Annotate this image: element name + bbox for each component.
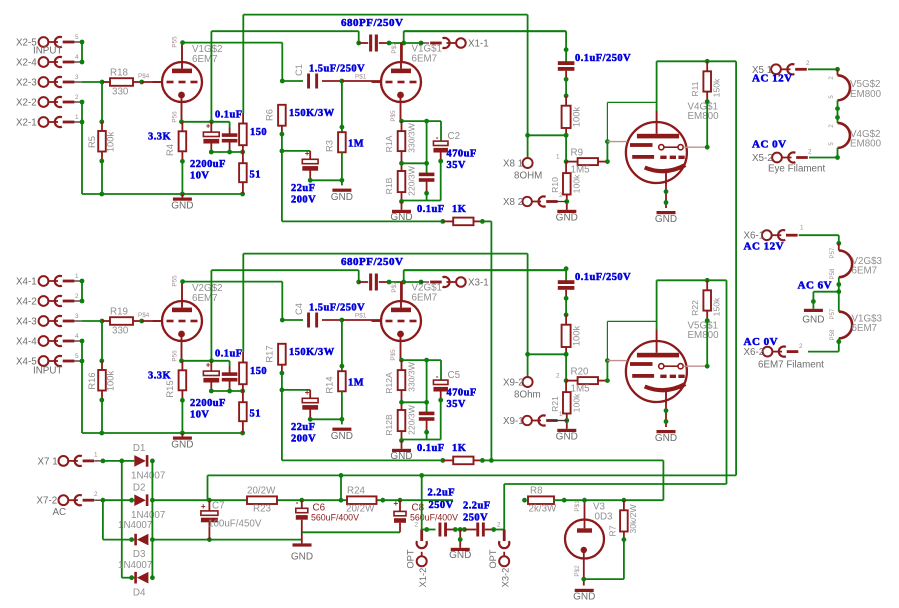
svg-text:R6: R6: [264, 109, 275, 121]
wire filament join: [837, 100, 839, 123]
resistor R17 150K/3W: [278, 344, 286, 365]
svg-text:10V: 10V: [190, 410, 209, 421]
svg-text:R8: R8: [530, 486, 543, 497]
connector X7-2: [59, 495, 69, 505]
filament V5G$2 EM800: [837, 69, 839, 75]
wire input to grid resistor: [82, 320, 103, 322]
capacitor 0.1uF/250V (eye2): [558, 280, 575, 284]
ground GND (V3): [575, 589, 594, 592]
triode V1G$2 6EM7: [162, 62, 202, 102]
resistor 1K (feedback): [443, 459, 453, 461]
capacitor C2 470uF/35V: [433, 141, 448, 145]
resistor R23 20/2W: [247, 496, 277, 504]
svg-text:X8 2: X8 2: [503, 197, 523, 208]
capacitor C7 100uF/450V: [207, 498, 212, 503]
svg-text:150k: 150k: [712, 78, 722, 97]
svg-text:4: 4: [75, 333, 79, 340]
wire to grid of output triode: [342, 80, 381, 82]
wire R to ground bus: [101, 152, 103, 162]
wire X7-2 to D3: [102, 500, 104, 539]
svg-text:C2: C2: [448, 131, 461, 142]
capacitor 2200uF/10V: [210, 361, 212, 371]
wire R to ground bus: [101, 391, 103, 401]
wire 51 to ground bus: [242, 182, 244, 194]
resistor R14 1M: [341, 320, 343, 371]
wire top bus 1: [243, 14, 527, 16]
svg-text:2: 2: [799, 343, 803, 350]
wire to output connector: [404, 281, 421, 283]
svg-text:C4: C4: [293, 303, 304, 315]
svg-text:P58: P58: [830, 268, 836, 279]
wire eye plate line: [656, 280, 658, 330]
svg-text:X2-4: X2-4: [16, 58, 37, 69]
svg-text:R5: R5: [86, 136, 97, 148]
triode V1G$1 6EM7: [381, 62, 421, 102]
connector X4-3: [39, 316, 49, 326]
wire R10 to gnd: [566, 195, 568, 210]
svg-text:2200uF: 2200uF: [190, 159, 226, 170]
svg-text:X7-2: X7-2: [37, 496, 58, 507]
svg-text:250V: 250V: [429, 500, 454, 511]
svg-text:R3: R3: [324, 140, 335, 152]
wire R1A-R1B junction: [401, 151, 403, 171]
svg-text:R4: R4: [164, 144, 175, 156]
svg-text:1M5: 1M5: [571, 165, 591, 176]
svg-text:6EM7: 6EM7: [852, 266, 878, 277]
svg-text:100uF/450V: 100uF/450V: [208, 519, 262, 530]
svg-text:100k: 100k: [572, 393, 582, 412]
svg-text:D4: D4: [133, 588, 146, 599]
ground GND (R1B): [401, 441, 403, 449]
svg-text:8OHM: 8OHM: [514, 171, 542, 182]
svg-text:35V: 35V: [447, 399, 466, 410]
capacitor C5 470uF/35V: [433, 380, 448, 384]
wire resistor to grid pin: [133, 320, 142, 322]
svg-text:1K: 1K: [452, 443, 466, 454]
ground GND (cathode): [181, 433, 183, 437]
connector X2-3: [39, 77, 49, 87]
svg-text:1: 1: [94, 452, 98, 459]
svg-text:X2-3: X2-3: [16, 78, 37, 89]
svg-text:X2-2: X2-2: [16, 98, 37, 109]
diode D2 1N4007: [129, 498, 134, 503]
svg-text:X1-2: X1-2: [417, 568, 428, 588]
svg-text:R10: R10: [550, 177, 560, 193]
svg-text:X3-1: X3-1: [468, 278, 489, 289]
svg-text:0D3: 0D3: [595, 512, 614, 523]
svg-text:+: +: [305, 149, 310, 158]
wire R10 to gnd: [566, 414, 568, 429]
svg-text:R21: R21: [550, 396, 560, 412]
svg-text:R22: R22: [690, 300, 700, 316]
svg-text:100k: 100k: [105, 132, 116, 153]
svg-text:X3-2: X3-2: [499, 568, 510, 588]
ground GND (R3): [332, 428, 351, 431]
svg-text:P$1: P$1: [355, 313, 367, 320]
svg-text:220/3W: 220/3W: [407, 404, 417, 435]
wire X5-1 to filament: [808, 68, 838, 70]
svg-text:100k: 100k: [571, 107, 582, 128]
triode V2G$1 6EM7: [381, 301, 421, 341]
svg-text:GND: GND: [390, 451, 412, 462]
svg-text:330/3W: 330/3W: [407, 361, 417, 392]
svg-text:22uF: 22uF: [291, 183, 316, 194]
wire top bus 2: [211, 30, 358, 32]
svg-text:1K: 1K: [452, 204, 466, 215]
svg-text:100k: 100k: [572, 174, 582, 193]
svg-text:-: -: [296, 498, 299, 507]
wire feedback drop: [662, 460, 664, 500]
svg-text:200V: 200V: [291, 434, 316, 445]
wire resistor to grid pin: [133, 81, 142, 83]
svg-text:3: 3: [75, 74, 79, 81]
capacitor 2200uF/10V: [210, 122, 212, 132]
svg-text:150K/3W: 150K/3W: [289, 347, 335, 358]
ground GND (speaker): [557, 429, 576, 432]
ground GND (C6): [293, 543, 312, 546]
capacitor C4 1.5uF/250V: [282, 319, 303, 321]
connector X8 1 speaker +: [527, 15, 529, 159]
svg-text:R18: R18: [110, 68, 129, 79]
wire 22uF to R3 gnd: [310, 418, 342, 420]
resistor R4 3.3K: [181, 122, 183, 132]
wire R6 bottom node: [281, 365, 283, 373]
svg-text:3.3K: 3.3K: [148, 132, 171, 143]
capacitor 0.1uF (cathode): [229, 122, 231, 128]
svg-text:P$5: P$5: [390, 349, 397, 361]
connector X5-2: [772, 153, 782, 163]
svg-text:470uF: 470uF: [447, 388, 477, 399]
svg-text:R1B: R1B: [384, 177, 394, 194]
svg-text:6EM7: 6EM7: [192, 54, 218, 65]
svg-text:5: 5: [829, 142, 835, 146]
svg-text:P56: P56: [172, 350, 179, 362]
svg-text:0.1uF: 0.1uF: [417, 204, 445, 215]
connector X1-1: [456, 38, 466, 48]
wire cathode to node: [179, 119, 184, 124]
wire cathode down: [399, 358, 404, 363]
wire feedback corner: [482, 459, 491, 461]
svg-text:0.1uF: 0.1uF: [417, 443, 445, 454]
wire plate lead up: [401, 43, 403, 62]
svg-text:150: 150: [250, 127, 267, 138]
svg-text:R17: R17: [264, 345, 275, 362]
wire bus to 0.1uF/250V: [565, 31, 567, 61]
svg-text:2k/3W: 2k/3W: [529, 504, 558, 515]
svg-text:20/2W: 20/2W: [346, 504, 375, 515]
svg-text:1: 1: [559, 411, 563, 418]
wire 51 to ground bus: [242, 421, 244, 433]
svg-text:1M: 1M: [348, 378, 364, 389]
svg-text:P56: P56: [172, 111, 179, 123]
svg-text:100k: 100k: [105, 371, 116, 392]
svg-text:2: 2: [415, 522, 419, 529]
svg-text:C1: C1: [293, 64, 304, 76]
ground GND (cathode): [181, 194, 183, 198]
svg-text:X4-4: X4-4: [16, 337, 37, 348]
svg-text:X6-2: X6-2: [744, 347, 765, 358]
wire X3-2 to B+ rail3: [503, 484, 505, 529]
svg-text:X4-3: X4-3: [16, 317, 37, 328]
diode D1 1N4007: [134, 455, 146, 467]
wire input pair to ground bus: [81, 102, 83, 194]
capacitor C1 1.5uF/250V: [282, 80, 303, 82]
svg-text:5: 5: [75, 34, 79, 41]
svg-text:1: 1: [75, 273, 79, 280]
ground GND (R1B): [401, 202, 403, 210]
wire 22uF to R3 gnd: [310, 179, 342, 181]
svg-text:330: 330: [112, 87, 129, 98]
ground GND (R3): [332, 189, 351, 192]
svg-text:D2: D2: [133, 482, 146, 493]
svg-text:R20: R20: [571, 367, 590, 378]
cathode rail wire: [182, 360, 230, 362]
wire node to speaker jack line: [528, 353, 567, 355]
wire eye plate line: [656, 61, 658, 111]
svg-text:1N4007: 1N4007: [118, 520, 152, 531]
connector X6-1: [762, 230, 772, 240]
wire eye cathode: [665, 183, 667, 208]
svg-text:GND: GND: [331, 431, 353, 442]
resistor R6 150K/3W: [278, 105, 286, 126]
svg-text:2: 2: [75, 293, 79, 300]
resistor 1K (feedback): [443, 220, 453, 222]
svg-text:1M: 1M: [348, 139, 364, 150]
svg-text:X4-2: X4-2: [16, 297, 37, 308]
wire R1A-R1B junction: [401, 390, 403, 410]
feedback row wire: [282, 459, 443, 461]
svg-text:GND: GND: [573, 592, 595, 603]
svg-text:200V: 200V: [291, 195, 316, 206]
wire to output connector: [404, 42, 421, 44]
wire X7-2 to D2: [103, 499, 134, 501]
resistor R 100k: [562, 325, 571, 347]
wire bottom rail: [401, 431, 403, 440]
wire B+ drop: [735, 61, 737, 475]
wire 100k to node: [565, 347, 567, 354]
resistor 150: [239, 124, 247, 146]
wire R11 to eye target pin: [706, 311, 708, 321]
wire plate line: [183, 281, 283, 283]
resistor R16 100k: [101, 321, 103, 361]
resistor R 100k: [562, 106, 571, 128]
svg-text:R9: R9: [571, 148, 584, 159]
wire eye grid loop: [606, 361, 608, 381]
wire R8 to V3 node: [554, 499, 663, 501]
svg-text:2: 2: [94, 491, 98, 498]
svg-text:1: 1: [75, 114, 79, 121]
ground bus wire: [82, 193, 243, 195]
svg-text:3: 3: [75, 313, 79, 320]
wire input pair join top: [81, 42, 83, 62]
wire R4 to ground: [181, 151, 183, 161]
svg-text:P57: P57: [830, 247, 836, 258]
svg-text:EM800: EM800: [688, 111, 720, 122]
wire X7-1 to D1: [103, 460, 134, 462]
svg-text:X9-2: X9-2: [503, 378, 524, 389]
wire input pair to ground bus: [81, 341, 83, 433]
connector X7-1: [59, 456, 69, 466]
svg-text:2.2uF: 2.2uF: [428, 488, 456, 499]
svg-text:C5: C5: [448, 370, 461, 381]
svg-text:R15: R15: [164, 380, 175, 397]
svg-text:35V: 35V: [447, 160, 466, 171]
triode V2G$2 6EM7: [162, 301, 202, 341]
resistor R10 100k: [563, 173, 571, 194]
capacitor C8 560uF/400V: [398, 498, 403, 503]
svg-text:51: 51: [250, 409, 261, 420]
capacitor 22uF/200V: [282, 150, 310, 152]
eye tube V4G$1 EM800: [626, 122, 687, 183]
svg-text:X8 1: X8 1: [503, 159, 523, 170]
svg-text:6EM7: 6EM7: [192, 293, 218, 304]
svg-text:EM800: EM800: [850, 89, 882, 100]
resistor R5 100k: [101, 82, 103, 122]
wire 100k to node: [565, 128, 567, 135]
resistor 150: [239, 363, 247, 385]
capacitor 22uF/200V: [282, 389, 310, 391]
svg-text:INPUT: INPUT: [33, 46, 62, 57]
svg-text:0.1uF: 0.1uF: [215, 110, 243, 121]
svg-text:GND: GND: [802, 315, 824, 326]
svg-text:30k/2W: 30k/2W: [628, 504, 638, 534]
svg-text:R1A: R1A: [384, 135, 394, 152]
wire eye grid loop: [606, 142, 608, 162]
wire bottom rail: [401, 192, 403, 201]
svg-text:330/3W: 330/3W: [407, 122, 417, 153]
svg-text:51: 51: [250, 170, 261, 181]
svg-text:150k: 150k: [712, 297, 722, 316]
svg-text:R11: R11: [690, 81, 700, 96]
svg-text:GND: GND: [291, 552, 313, 563]
svg-text:2: 2: [75, 94, 79, 101]
svg-text:330: 330: [112, 326, 129, 337]
wire R4 to ground: [181, 390, 183, 400]
svg-text:1N4007: 1N4007: [131, 471, 165, 482]
svg-text:6EM7: 6EM7: [412, 54, 438, 65]
svg-text:R19: R19: [110, 307, 128, 318]
wire center tap: [838, 277, 840, 311]
svg-text:0.1uF/250V: 0.1uF/250V: [575, 272, 631, 283]
svg-text:P$5: P$5: [390, 110, 397, 122]
svg-text:P57: P57: [830, 308, 836, 319]
svg-text:6EM7 Filament: 6EM7 Filament: [758, 360, 824, 371]
connector X8 2: [523, 197, 532, 206]
wire cap bottoms: [211, 151, 242, 153]
resistor R8 2k/3W: [522, 498, 527, 503]
wire plate lead up: [401, 282, 403, 301]
filament V1G$3 6EM7: [839, 312, 852, 339]
svg-text:D3: D3: [133, 549, 146, 560]
svg-text:R7: R7: [608, 525, 618, 536]
cathode node wire: [402, 359, 442, 361]
svg-text:150K/3W: 150K/3W: [289, 108, 335, 119]
svg-text:X7 1: X7 1: [38, 456, 58, 467]
svg-text:20/2W: 20/2W: [247, 486, 276, 497]
capacitor 680PF/250V: [359, 281, 369, 283]
svg-text:GND: GND: [331, 192, 353, 203]
capacitor 2.2uF (2): [464, 529, 476, 531]
wire C8 to gnd: [302, 531, 400, 533]
svg-text:6EM7: 6EM7: [412, 293, 438, 304]
wire R7 to cathode: [623, 532, 625, 540]
svg-text:AC 6V: AC 6V: [798, 280, 833, 292]
wire plate line: [183, 42, 283, 44]
wire input to grid resistor: [82, 81, 103, 83]
wire bus to 0.1uF/250V: [565, 270, 567, 280]
diode D3 1N4007: [129, 537, 134, 542]
svg-text:GND: GND: [171, 201, 193, 212]
svg-text:D1: D1: [133, 443, 146, 454]
svg-text:GND: GND: [655, 214, 677, 225]
svg-text:1: 1: [800, 225, 804, 232]
diode D4 1N4007: [129, 575, 134, 580]
resistor 51: [242, 145, 244, 163]
capacitor 0.1uF (R1B bypass): [426, 121, 428, 173]
wire cap to 100k: [565, 290, 567, 299]
wire B+ rail2: [208, 474, 737, 476]
resistor R3 1M: [341, 81, 343, 132]
svg-text:+: +: [201, 502, 206, 511]
svg-text:+: +: [394, 499, 399, 508]
svg-text:GND: GND: [390, 212, 412, 223]
svg-text:+: +: [206, 122, 211, 131]
resistor R1A 330/3W: [401, 121, 403, 131]
svg-text:C7: C7: [212, 501, 225, 512]
svg-text:1: 1: [556, 154, 560, 161]
svg-text:X5-2: X5-2: [752, 153, 773, 164]
svg-text:P58: P58: [830, 329, 836, 340]
regulator tube V3 0D3: [565, 520, 604, 559]
ground GND (speaker): [557, 210, 576, 213]
wire node to speaker jack line: [528, 134, 567, 136]
svg-text:GND: GND: [556, 432, 578, 443]
svg-text:2: 2: [829, 76, 835, 80]
svg-text:EM800: EM800: [688, 330, 720, 341]
ground bus wire: [82, 432, 243, 434]
svg-text:0.1uF: 0.1uF: [215, 349, 243, 360]
svg-text:2200uF: 2200uF: [190, 398, 226, 409]
svg-text:AC 0V: AC 0V: [752, 139, 787, 151]
svg-text:1M5: 1M5: [571, 384, 591, 395]
svg-text:4: 4: [75, 54, 79, 61]
resistor R19 330: [110, 317, 133, 325]
svg-text:INPUT: INPUT: [33, 366, 62, 377]
svg-text:2.2uF: 2.2uF: [463, 501, 491, 512]
connector X9-2 speaker +: [527, 254, 529, 378]
svg-text:OPT: OPT: [487, 549, 498, 569]
resistor R21 100k: [563, 392, 571, 413]
wire center gnd: [455, 529, 464, 531]
svg-text:Eye Filament: Eye Filament: [768, 164, 825, 175]
wire filament to X6-2: [838, 338, 840, 351]
svg-text:5: 5: [829, 95, 835, 99]
connector X4-1: [39, 276, 49, 286]
resistor R1B 220/3W: [398, 171, 406, 192]
wire diode cathode bus: [151, 461, 153, 578]
wire rectifier output row: [152, 499, 453, 501]
wire rail2 tap: [339, 498, 344, 503]
svg-text:AC: AC: [53, 507, 67, 518]
wire top bus 1: [243, 253, 527, 255]
capacitor 0.1uF/250V (eye1): [558, 61, 575, 65]
svg-text:5: 5: [75, 353, 79, 360]
wire eye cathode: [665, 402, 667, 427]
connector X1-2 OPT: [417, 556, 427, 566]
svg-text:3.3K: 3.3K: [148, 371, 171, 382]
svg-text:AC 12V: AC 12V: [744, 241, 785, 253]
cathode node wire: [402, 120, 442, 122]
